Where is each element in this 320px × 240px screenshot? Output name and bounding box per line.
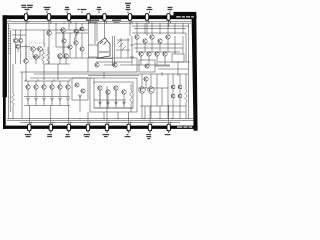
wire x183 down: [182, 36, 184, 54]
transistor Q35: [155, 52, 159, 56]
transistor Q49: [80, 27, 84, 31]
wire R5 to Q43 cluster: [74, 38, 76, 41]
transistor Q13 (mirror): [34, 85, 38, 89]
transistor Q44: [68, 45, 72, 49]
wire D5 to rail: [59, 101, 61, 106]
pin number 4: [90, 22, 91, 24]
transistor Q2: [18, 38, 23, 43]
transistor Q29: [143, 39, 147, 43]
wire Q22 emitter long: [99, 90, 101, 108]
pin 13 stub wire: [106, 123, 108, 124]
right rail y62: [158, 61, 190, 63]
transistor Q42: [171, 94, 175, 98]
wire Q45 emitter: [75, 45, 77, 58]
label pin 8 BOOST DRIVE: [168, 7, 173, 8]
wire pin11 riser: [68, 106, 70, 125]
rail y74 long: [34, 73, 188, 75]
wire Q12 collector: [27, 81, 29, 85]
wire pin13 riser: [128, 112, 130, 124]
pin number 10: [52, 122, 53, 124]
wire R6 top: [42, 49, 44, 52]
wire Q10 emitter: [65, 58, 67, 64]
wire R4 top: [185, 74, 187, 90]
transistor Q25: [122, 90, 126, 94]
bottom ground bus 3: [20, 122, 180, 124]
wire D7 down: [79, 98, 81, 112]
transistor Q48: [74, 29, 78, 33]
wire Q13 collector: [35, 81, 37, 85]
pin 15 stub wire: [149, 123, 151, 124]
wire x186 down: [185, 33, 187, 62]
figure number block (top right, white text on black): [174, 12, 197, 19]
schematic border frame right bar: [192, 15, 198, 131]
wire Q49 collector stub: [81, 23, 83, 27]
wire out of driver lower: [130, 56, 134, 58]
wire Q37 emitter: [141, 93, 143, 118]
wire R6 bottom: [42, 63, 44, 64]
wire Q9 emitter: [59, 58, 61, 64]
pin 6 stub wire: [129, 20, 131, 21]
wire right drop 1: [136, 23, 138, 34]
pin 7 stub wire: [146, 20, 148, 21]
net label V+ SUPPLY on bus: [86, 20, 99, 21]
pin number 2: [50, 22, 51, 24]
wire box B mid rail: [94, 99, 126, 101]
left edge wire 1: [8, 23, 10, 118]
transistor Q41: [178, 85, 182, 89]
diode D10: [115, 102, 118, 105]
wire pin7 drop: [146, 20, 148, 36]
vertical x162b: [161, 88, 163, 106]
resistor R6: [42, 52, 45, 63]
upper horizontal rail: [12, 29, 88, 31]
pin number 6: [131, 22, 132, 24]
wire Q41 collector: [179, 74, 181, 85]
transistor Q4: [31, 47, 36, 52]
left edge wire 2: [10, 30, 12, 112]
box B left stub: [93, 78, 95, 84]
right rail y106: [140, 105, 186, 107]
driver box D: [139, 60, 155, 72]
wire Q35 down: [156, 56, 158, 65]
diode D4: [51, 98, 54, 101]
pin 4 stub wire: [88, 20, 90, 21]
vertical x26 node: [25, 44, 27, 58]
wire Q45 collector drop: [75, 33, 77, 41]
transistor Q17 (mirror): [66, 85, 70, 89]
pin 9 stub wire: [28, 123, 30, 124]
wire Q15 collector: [51, 81, 53, 85]
transistor Q28: [135, 35, 139, 39]
label pin 13 V- SUPPLY: [128, 131, 130, 133]
transistor Q3: [16, 44, 20, 48]
pin 1 stub wire: [25, 20, 27, 21]
wire Q47 out: [155, 65, 170, 67]
transistor Q34: [147, 52, 151, 56]
transistor Q12 (mirror): [26, 85, 30, 89]
wire box B to ground: [117, 112, 119, 119]
mirror lower rail: [24, 105, 70, 107]
wire R7 bottom: [47, 63, 49, 64]
wire emitter join: [33, 56, 40, 58]
pin 5 stub wire: [104, 20, 106, 21]
label pin 4 V+ SUPPLY: [78, 9, 80, 10]
wire box B to ground 2: [103, 112, 105, 119]
vertical x157: [156, 74, 158, 106]
wire R1 to ground bus: [12, 105, 14, 119]
pin 14 stub wire: [128, 123, 130, 124]
wire Q43 emitter: [63, 43, 65, 58]
transistor Q47: [145, 64, 149, 68]
power pass transistor Q18 (large symbol): [98, 38, 110, 58]
wire Q44 emitter: [69, 49, 71, 58]
wire Q3-Q4 base link: [20, 46, 31, 49]
wire x175 down: [174, 36, 176, 54]
wire Q5 emitter down: [39, 52, 41, 58]
wire D3 to rail: [43, 101, 45, 106]
diode D1: [27, 98, 30, 101]
vertical x56 drop: [55, 23, 57, 47]
wire pin10 riser: [50, 106, 52, 125]
resistor R7: [47, 52, 50, 63]
right rail y28: [134, 28, 186, 30]
pin number 16: [170, 122, 171, 124]
wire R7 top: [47, 47, 49, 52]
transistor Q7: [47, 31, 52, 36]
pin number 8: [170, 22, 171, 24]
wire Q14 collector: [43, 81, 45, 85]
label pin 7 REGULATED OUTPUT: [148, 7, 152, 8]
pin 10 stub wire: [50, 123, 52, 124]
wire pin11 riser: [87, 112, 89, 124]
wire Q4-Q5 link: [35, 48, 38, 50]
transistor Q40: [171, 85, 175, 89]
wire Q14 emitter: [43, 89, 45, 96]
pin 12 stub wire: [87, 123, 89, 124]
wire Q2 collector to rail: [20, 30, 22, 38]
wire pin6 drop: [129, 20, 131, 36]
transistor Q22: [98, 86, 102, 90]
right rail y52: [136, 51, 180, 53]
wire Q40 collector: [172, 74, 174, 85]
wire Q38 collector: [150, 74, 152, 87]
label pin 10 INVERTING INPUT: [68, 131, 70, 133]
zener diode box: [172, 54, 184, 62]
wire Q13 emitter: [35, 89, 37, 96]
note text column (left margin): [8, 20, 11, 23]
wire Q15 emitter: [51, 89, 53, 96]
wire D4 to rail: [51, 101, 53, 106]
bottom pin bump 11: [67, 124, 70, 131]
wire pin15 riser: [168, 105, 170, 124]
diode D8: [99, 102, 102, 105]
transistor Q26: [95, 63, 99, 67]
wire R3 bottom: [130, 104, 132, 112]
label pin 14 FREQ COMP OUT: [149, 131, 151, 133]
wire box C to box B: [103, 72, 105, 78]
wire Q1 collector to rail: [15, 30, 17, 38]
pin 16 stub wire: [168, 123, 170, 124]
pin 11 stub wire: [68, 123, 70, 124]
transistor Q30: [150, 35, 154, 39]
wire Q30 down: [151, 39, 153, 52]
wire Q7 emitter down: [48, 35, 50, 64]
wire Q43 collector drop: [63, 33, 65, 39]
vertical x58: [57, 64, 59, 80]
wire Q42 emitter: [172, 98, 174, 119]
pin number 7: [148, 22, 149, 24]
pin number 3: [70, 22, 71, 24]
wire Q24 emitter: [115, 90, 117, 100]
transistor Q45: [74, 41, 78, 45]
wire Q11 to mirror bus: [25, 63, 27, 81]
pin number 15: [151, 122, 152, 124]
wire Q24 emitter long: [115, 90, 117, 108]
wire node down: [43, 30, 45, 47]
wire Q44 collector drop: [69, 33, 71, 45]
wire Q36 down: [164, 56, 166, 65]
wire D6 to rail: [67, 101, 69, 106]
transistor Q8: [61, 28, 66, 33]
right rail y26: [132, 25, 189, 27]
top pin bump 8: [167, 14, 170, 21]
wire pin12 riser: [106, 86, 108, 124]
bottom pin bump 13: [105, 124, 108, 131]
bottom pin bump 9: [28, 124, 31, 131]
wire right drop 5: [167, 23, 169, 34]
wire right drop 6: [174, 23, 176, 34]
transistor Q31: [158, 39, 162, 43]
right rail y69: [158, 68, 189, 70]
wire Q23 emitter long: [107, 94, 109, 108]
top pin bump 2: [47, 14, 50, 21]
wire Q16 emitter: [59, 89, 61, 96]
diode D5: [59, 98, 62, 101]
bottom pin bump 15: [148, 124, 151, 131]
wire Q29 emitter: [144, 43, 146, 52]
pin number 1: [27, 22, 28, 24]
wire Q43b emitter: [179, 98, 181, 119]
transistor Q46: [80, 47, 84, 51]
bottom pin bump 12: [86, 124, 89, 131]
wire Q2 emitter down: [20, 43, 22, 64]
wire Q8 down to Q9: [62, 32, 64, 54]
wire bus to Q18 2: [96, 23, 98, 41]
wire right drop 3: [151, 23, 153, 34]
upper interstage box C: [88, 58, 137, 72]
wire Q32 down: [167, 39, 169, 52]
box B bottom rail: [94, 107, 133, 109]
transistor Q15 (mirror): [50, 85, 54, 89]
wire Q40-Q42 link: [172, 89, 174, 94]
transistor Q16 (mirror): [58, 85, 62, 89]
top pin bump 1: [24, 14, 27, 21]
resistor R3: [130, 90, 133, 104]
pin 3 stub wire: [68, 20, 70, 21]
wire Q27 out: [120, 64, 137, 66]
transistor Q32: [166, 35, 170, 39]
transistor Q20: [75, 83, 79, 87]
wire pin5 drop: [104, 20, 106, 38]
diode D3: [43, 98, 46, 101]
wire right drop 2: [144, 23, 146, 34]
right rail y112: [150, 111, 186, 113]
wire bus to Q18: [94, 23, 96, 44]
right rail y88: [138, 87, 168, 89]
schematic border frame bottom bar: [3, 126, 197, 129]
double vertical rail through output stage: [113, 36, 115, 66]
pin number 5: [106, 22, 107, 24]
top supply bus V+ upper: [7, 20, 191, 22]
label pin 2 NON-INVERTING INPUT: [44, 7, 51, 8]
wire to Q9/Q10 bases: [56, 46, 70, 48]
wire x22 vertical: [21, 72, 23, 119]
vertical x162 stub: [161, 72, 163, 76]
transistor Q11: [24, 59, 29, 64]
rail y72 left: [20, 71, 88, 73]
wire D2 to rail: [35, 101, 37, 106]
resistor R1: [12, 94, 15, 105]
transistor Q37 (power): [139, 87, 145, 93]
pin number 13: [108, 122, 109, 124]
top pin bump 7: [145, 14, 148, 21]
wire Q12 emitter: [27, 89, 29, 96]
right rail y65: [137, 64, 170, 66]
horizontal rail y35 left: [12, 34, 26, 36]
vertical x178: [177, 62, 179, 76]
bias network box A: [72, 78, 88, 100]
junction dots: [25, 21, 26, 22]
wire y62 below output stage: [96, 61, 132, 63]
wire Q17 emitter: [67, 89, 69, 96]
rail y33 middle: [56, 32, 88, 34]
wire R1 top: [12, 64, 14, 94]
junction: [12, 29, 14, 31]
label pin 8 CURRENT LIMIT: [28, 131, 30, 133]
top pin bump 4: [87, 14, 90, 21]
top supply bus V+ lower: [7, 22, 191, 24]
resistor R4: [185, 90, 188, 102]
top pin bump 5: [103, 14, 106, 21]
wire Q22 emitter: [99, 90, 101, 100]
rail y58 middle: [58, 57, 88, 59]
label pin 6 SERIES PASS BASE DRIVE: [125, 3, 131, 4]
wire edge vertical full: [188, 24, 190, 119]
transistor Q38 (power): [148, 87, 154, 93]
wire Q25 emitter long: [123, 94, 125, 108]
mirror common bus: [24, 80, 70, 82]
wire D1 to rail: [27, 101, 29, 106]
pin 2 stub wire: [48, 20, 50, 21]
transistor Q1: [13, 38, 18, 43]
dashed enclosure around Q4-Q6: [29, 43, 45, 58]
transistor Q9: [58, 54, 63, 59]
horizontal rail y64: [44, 63, 70, 65]
wire Q28 down: [136, 39, 138, 52]
wire x132 down: [131, 36, 133, 65]
figure number text on bottom bar: [177, 126, 192, 128]
wire Q33 down: [140, 56, 142, 65]
diode D6: [67, 98, 70, 101]
wire Q4 emitter down: [32, 52, 34, 58]
wire Q46 emitter: [81, 51, 83, 58]
net label on bus right: [112, 20, 121, 21]
wire Q34 down: [148, 56, 150, 65]
transistor Q43b: [178, 94, 182, 98]
wire below Q18: [96, 58, 112, 60]
wire right drop 4: [159, 23, 161, 34]
rail y78 left: [30, 77, 92, 79]
transistor Q36: [163, 52, 167, 56]
pin 8 stub wire: [168, 20, 170, 21]
pin number 14: [130, 122, 131, 124]
wire R4 bottom: [185, 102, 187, 119]
right rail y48: [134, 47, 183, 49]
wire Q41-Q43b link: [179, 89, 181, 94]
bottom pin bump 14: [127, 124, 130, 131]
wire into Q18 lower: [89, 56, 99, 58]
rail y75.5 middle link: [88, 75, 139, 77]
vertical x145 to bus: [144, 106, 146, 119]
wire pin3 drop: [68, 20, 70, 30]
transistor Q43: [62, 39, 66, 43]
pin number 11: [70, 122, 71, 124]
bottom pin bump 10: [49, 124, 52, 131]
bottom ground bus 2: [7, 120, 194, 122]
mirror emitter rail: [24, 96, 70, 98]
transistor Q14 (mirror): [42, 85, 46, 89]
transistor Q39 (driver): [144, 77, 148, 81]
transistor Q33: [139, 52, 143, 56]
top pin bump 3: [67, 14, 70, 21]
top pin bump 6: [128, 14, 131, 21]
wire pin14 riser: [149, 106, 151, 124]
schematic border frame left bar: [3, 15, 7, 97]
right rail y33: [132, 32, 186, 34]
driver cluster right of Q18: [116, 38, 130, 58]
diode D11: [123, 102, 126, 105]
wire Q38 emitter: [150, 93, 152, 118]
transistor Q10: [64, 54, 69, 59]
regulator core box B: [90, 78, 137, 112]
diode D9: [107, 102, 110, 105]
diode D2: [35, 98, 38, 101]
wire right drop 7: [182, 23, 184, 34]
vertical x44: [43, 64, 45, 80]
bottom ground bus 1: [7, 118, 194, 120]
label pin 15 OUTPUT: [168, 131, 170, 133]
wire out of driver upper: [130, 44, 134, 46]
pin number 9: [31, 122, 32, 124]
wire Q6 emitter down: [35, 59, 37, 64]
label pin 12 VOLTAGE REF: [106, 131, 108, 133]
wire pin8 drop: [168, 20, 170, 27]
schematic border frame top bar: [3, 15, 197, 19]
vertical x160 to bus: [159, 106, 161, 119]
transistor Q6: [34, 55, 39, 60]
wire Q26-Q27 link: [104, 64, 113, 66]
wire Q46 collector drop: [81, 33, 83, 47]
right rail y44: [134, 43, 182, 45]
wire R3 top: [130, 84, 132, 90]
transistor Q21: [81, 89, 85, 93]
pin number 12: [89, 122, 90, 124]
label pin 3 INVERTING INPUT: [65, 7, 69, 8]
transistor Q5: [38, 47, 43, 52]
wire pin2 drop: [48, 20, 50, 35]
wire into Q18 base: [89, 44, 99, 46]
wire Q37 collector: [141, 74, 143, 87]
